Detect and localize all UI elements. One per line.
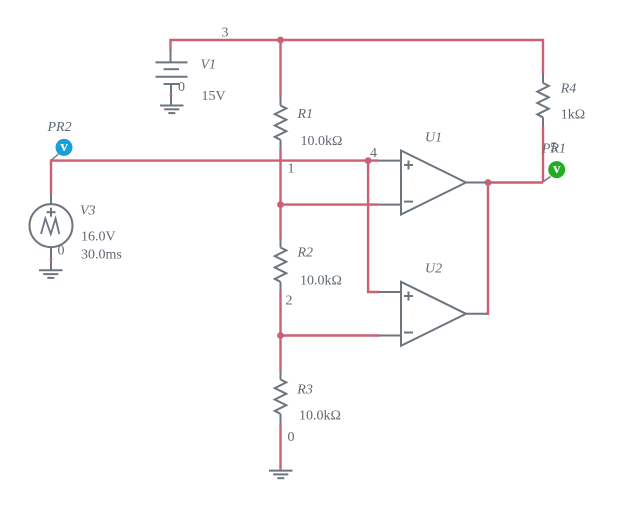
battery V1 — [156, 50, 188, 105]
svg-text:0: 0 — [288, 430, 295, 445]
wire node 2 to U2 minus input — [281, 334, 381, 336]
ground below V3 — [39, 270, 63, 278]
wire R2 bottom through node 2 to R3 — [279, 292, 281, 372]
svg-text:10.0kΩ: 10.0kΩ — [301, 134, 343, 149]
svg-text:V3: V3 — [80, 203, 96, 218]
wire U1 output to R4 bottom — [487, 181, 544, 183]
svg-text:3: 3 — [222, 26, 229, 41]
wire net 3 top horizontal — [171, 40, 544, 74]
svg-text:R3: R3 — [296, 382, 313, 397]
resistor R1 — [275, 97, 287, 150]
resistor R3 — [275, 371, 287, 424]
svg-text:10.0kΩ: 10.0kΩ — [300, 274, 342, 289]
svg-text:10.0kΩ: 10.0kΩ — [299, 409, 341, 424]
op-amp U1 — [379, 151, 487, 215]
svg-text:5: 5 — [550, 141, 557, 156]
ground below V1 — [160, 106, 184, 114]
node 1 junction dot — [277, 201, 284, 208]
probe PR2 pointer — [52, 154, 59, 160]
op-amp U2 — [379, 282, 487, 346]
output junction dot — [485, 179, 492, 186]
svg-text:U1: U1 — [425, 131, 442, 146]
svg-text:V1: V1 — [201, 57, 217, 72]
svg-text:PR2: PR2 — [47, 120, 72, 135]
resistor R2 — [275, 239, 287, 292]
wire R4 bottom vertical — [542, 127, 544, 183]
svg-text:v: v — [60, 139, 68, 155]
svg-text:16.0V: 16.0V — [81, 230, 116, 245]
resistor R4 — [537, 74, 549, 127]
wire from node 3 to R1 — [279, 40, 281, 97]
wire node 1 to U1 minus input — [281, 203, 379, 205]
svg-text:1: 1 — [288, 161, 295, 176]
probe PR1 pointer — [544, 177, 551, 182]
V3 pin dot — [50, 258, 53, 261]
svg-text:0: 0 — [178, 80, 185, 95]
svg-text:1kΩ: 1kΩ — [561, 107, 585, 122]
svg-text:R4: R4 — [560, 81, 577, 96]
svg-text:2: 2 — [286, 294, 293, 309]
node 2 junction dot — [277, 332, 284, 339]
node 3 junction dot — [277, 37, 284, 44]
node 4 junction dot — [365, 157, 372, 164]
battery V1 pin dot — [170, 94, 173, 97]
probe PR1 — [548, 161, 565, 178]
probe PR2 — [56, 139, 73, 156]
svg-text:v: v — [553, 161, 561, 177]
wire net 1 horizontal from PR2 corner to U1 plus — [51, 161, 379, 194]
svg-text:R1: R1 — [297, 107, 314, 122]
wire U1 output junction down to U2 output — [486, 183, 488, 314]
svg-text:4: 4 — [370, 146, 377, 161]
svg-text:15V: 15V — [202, 89, 226, 104]
wire node 4 down to U2 plus input — [368, 161, 379, 292]
source V3 — [30, 194, 73, 271]
svg-text:U2: U2 — [425, 261, 442, 276]
wire R1 bottom through node 1 to R2 — [279, 149, 281, 239]
svg-text:R2: R2 — [297, 245, 314, 260]
ground below R3 — [269, 471, 293, 479]
svg-text:0: 0 — [58, 244, 65, 259]
svg-text:30.0ms: 30.0ms — [81, 248, 122, 263]
wire R3 bottom to ground — [279, 423, 281, 470]
